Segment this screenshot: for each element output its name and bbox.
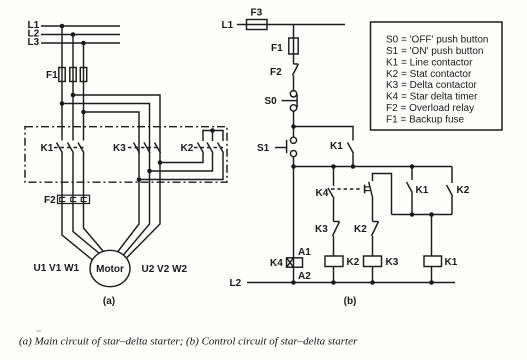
svg-text:U2 V2 W2: U2 V2 W2 [142,264,188,275]
svg-text:A2: A2 [298,271,311,282]
wire phase1 drop through fuse to K1 [61,26,63,141]
svg-text:K1: K1 [416,185,429,196]
push button S1 actuator [275,147,287,149]
svg-text:F2 = Overload relay: F2 = Overload relay [386,103,474,114]
contact K2 parallel blade [447,185,453,196]
wire coil K4 to L2 [293,267,295,282]
junction L2 at K1 coil [429,280,434,285]
overload contact F2 (NC) blade [293,64,299,76]
junction lower rail at coil K1 [429,212,434,217]
wire K3 NC to coil K2 [333,236,335,256]
svg-text:L1: L1 [222,20,234,31]
wire rail to K1 parallel contact [411,167,413,181]
svg-text:L3: L3 [28,37,40,48]
fuse F1 pole3 [80,68,86,82]
wire F2 to S0 [293,76,295,91]
junction L2 tap [71,32,76,37]
coil K3 [364,256,382,267]
junction rail at K1 holding [351,164,356,169]
svg-text:Motor: Motor [96,264,124,275]
wire L2 rail [247,282,455,284]
svg-text:K2: K2 [181,143,194,154]
motor M [90,250,130,286]
overload relay F2 element1 [60,197,66,201]
junction rail at K1 parallel [410,164,415,169]
contactor K3 pole2 blade [144,143,150,154]
wire K2 NC to coil K3 [372,236,374,256]
contact K2 NC tick [373,221,379,223]
push button S0 bridge [296,94,298,107]
starter enclosure boundary (dash-dot box) [25,127,227,183]
svg-text:K3: K3 [315,224,328,235]
timer delay symbol [365,186,370,188]
contact K3 NC tick [334,221,340,223]
wire K2 star bridge [203,131,223,142]
junction lower rail at K1 [410,212,415,217]
wire K1 pole1 to motor U1 [62,153,95,262]
junction L1 tap [60,24,65,29]
contactor K2 pole2 blade [207,143,213,154]
junction node W2 [158,160,163,165]
svg-text:F1: F1 [271,43,283,54]
svg-text:K3 = Delta contactor: K3 = Delta contactor [386,80,478,91]
contactor K1 pole3 blade [78,143,84,154]
wire K1 pole3 to motor W1 [84,153,104,251]
junction node 1 [291,124,296,129]
fuse F1 pole1 [59,68,65,82]
contactor K1 pole2 blade [68,143,74,154]
svg-text:K1: K1 [330,141,343,152]
contact K1 parallel blade [407,182,413,193]
wire K2 middle pole stub [212,131,214,142]
contactor K2 linkage [194,147,223,149]
wire S1 to rail [293,157,295,167]
svg-text:K2: K2 [354,224,367,235]
junction rail at K4 branch [331,164,336,169]
wire node1 to S1 [293,127,295,138]
junction phase2 branch [71,93,76,98]
wire branch phase1 to K3 pole2 [62,104,150,141]
contactor K3 linkage [128,147,160,149]
wire K2 pole1 to node W2 [160,153,203,163]
coil K4 timer body [287,258,303,267]
wire L1 bus [41,25,120,27]
junction node V2 [147,169,152,174]
wire rail to coil K4 [293,167,295,258]
wire timed branch top [373,174,392,215]
wire S0 to node 1 [293,111,295,126]
wire coil K3 to L2 [372,267,374,283]
svg-text:F1: F1 [46,70,58,81]
svg-text:K2: K2 [457,185,470,196]
push button S0 lower contact [290,105,296,111]
svg-text:U1 V1 W1: U1 V1 W1 [34,263,80,274]
wire timed contact to K2 NC [372,197,374,222]
wire K2 pole2 to node V2 [150,153,213,171]
timer link dashes [331,188,363,190]
coil K4 divider [293,258,295,267]
junction L2 at K2 coil [331,280,336,285]
svg-text:K4: K4 [270,258,283,269]
push button S1 upper contact [290,137,296,143]
wire L1 through fuse F1 to F2 [293,25,295,65]
junction L3 tap [81,41,86,46]
overload contact F2 (NC) tick [294,63,299,65]
scan artifact mark [37,330,42,331]
wire coil K2 to L2 [333,267,335,283]
junction phase3 branch [81,110,86,115]
svg-text:K1 = Line contactor: K1 = Line contactor [386,57,473,68]
push button S0 actuator [282,100,298,102]
wire K4 contact to K3 NC [333,199,335,222]
svg-text:(a): (a) [103,296,115,307]
overload relay F2 element3 [81,197,87,201]
contactor K2 pole3 blade [218,143,224,154]
svg-text:S1 = 'ON' push button: S1 = 'ON' push button [386,46,484,57]
contactor K1 linkage [54,147,84,149]
svg-text:K1: K1 [445,257,458,268]
wire L1 control feed [237,24,345,26]
svg-text:F3: F3 [251,8,263,19]
svg-text:F1 = Backup fuse: F1 = Backup fuse [386,114,465,125]
push button S0 upper contact [290,91,296,97]
coil K2 [325,256,343,267]
wire K3 pole2 to motor V2 [123,141,150,256]
svg-text:K4 = Star delta timer: K4 = Star delta timer [386,92,478,103]
junction phase1 branch [60,101,65,106]
contact K1 holding blade [348,143,354,154]
wire K2 pole3 to node U2 [139,153,223,180]
svg-text:F2: F2 [44,195,56,206]
wire rail to K4 timed contact [333,167,335,187]
wire coil K1 to L2 [431,267,433,283]
wire K1 holding to rail [352,154,354,167]
overload relay F2 frame [58,195,90,203]
wire K3 pole3 to motor W2 [126,141,160,259]
svg-text:K3: K3 [386,257,399,268]
contactor K3 pole1 blade [134,143,140,154]
wire branch phase3 to K3 pole1 [84,112,140,141]
wire rail right end to K2 contact [451,167,453,184]
wire K1 pole2 to motor V1 [73,153,100,254]
timer delay symbol bar [364,185,366,194]
coil K4 cross 2 [287,258,294,267]
contactor K1 pole1 blade [57,143,63,154]
svg-text:A1: A1 [298,247,311,258]
coil K1 [424,256,442,267]
wire L2 bus [41,34,120,36]
wire K3 pole1 to motor U2 [118,141,140,253]
contact K2 NC blade [372,222,379,237]
svg-text:F2: F2 [270,67,282,78]
junction L2 at K3 coil [370,280,375,285]
contact K3 NC blade [333,222,340,237]
svg-text:K2 = Stat contactor: K2 = Stat contactor [386,69,472,80]
wire phase2 drop through fuse to K1 [72,35,74,141]
svg-text:S0 = 'OFF' push button: S0 = 'OFF' push button [386,35,489,46]
svg-text:(b): (b) [344,296,357,307]
wire branch phase2 to K3 pole3 [73,95,160,141]
overload relay F2 element2 [71,197,77,201]
wire control rail [294,166,453,168]
wire lower rail to coil K1 [431,215,433,257]
svg-text:K3: K3 [113,143,126,154]
contact K4 blade [328,188,334,199]
push button S1 bridge [286,140,288,153]
wire K1 parallel to lower rail [411,193,413,215]
contact K2t timed blade [369,182,373,197]
junction K2 star point [210,128,215,133]
svg-text:L2: L2 [230,278,242,289]
svg-text:K1: K1 [41,143,54,154]
junction rail at main branch [291,164,296,169]
svg-text:K2: K2 [347,257,360,268]
svg-text:(a) Main circuit of star–delta: (a) Main circuit of star–delta starter; … [19,336,358,348]
fuse F3 [247,20,268,30]
svg-text:S0: S0 [265,96,278,107]
svg-text:S1: S1 [257,143,270,154]
wire node1 to K1 holding contact [294,127,354,141]
coil K4 cross 1 [287,258,294,267]
svg-text:K4: K4 [316,188,329,199]
junction L2 at K4 [291,280,296,285]
wire lower rail [392,214,453,216]
legend text [386,35,489,126]
junction node U2 [137,177,142,182]
wire phase3 drop through fuse to K1 [83,43,85,141]
wire L3 bus [41,42,120,44]
fuse F1 pole2 [70,68,76,82]
fuse F1 [289,38,298,54]
contactor K2 pole1 blade [198,143,204,154]
contactor K3 pole3 blade [155,143,161,154]
push button S1 lower contact [290,151,296,157]
wire K2 parallel to lower rail [451,196,453,215]
legend box [371,22,503,130]
